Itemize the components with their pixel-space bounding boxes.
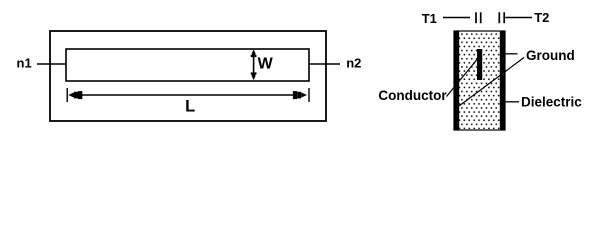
svg-text:L: L [185,97,195,115]
svg-text:T2: T2 [534,10,549,25]
svg-text:W: W [258,56,274,73]
svg-text:T1: T1 [422,11,437,26]
svg-text:n1: n1 [17,56,32,71]
svg-text:Conductor: Conductor [378,88,447,103]
svg-text:Ground: Ground [526,48,575,63]
svg-text:Dielectric: Dielectric [521,95,582,110]
svg-text:n2: n2 [346,55,361,70]
